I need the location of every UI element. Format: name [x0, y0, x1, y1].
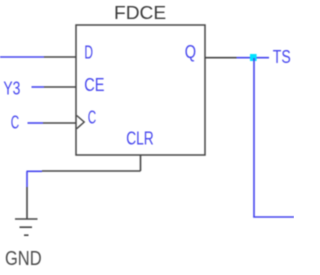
svg-text:CE: CE	[84, 74, 104, 95]
wire net to ground vertical	[26, 171, 28, 187]
wire net Y3 to pin CE	[32, 86, 45, 88]
ground symbol bar 3	[24, 234, 29, 236]
pin CLR stub horizontal	[42, 170, 141, 172]
svg-text:TS: TS	[273, 46, 291, 67]
ground symbol bar 2	[20, 226, 33, 228]
wire net TS bottom run to edge	[253, 216, 294, 218]
svg-text:GND: GND	[5, 248, 42, 270]
wire net to pin D	[0, 56, 44, 58]
ground symbol bar 1	[15, 218, 38, 220]
flip-flop U1 FDCE symbol body	[76, 25, 205, 155]
svg-text:C: C	[88, 107, 96, 128]
pin CLR stub vertical	[140, 155, 142, 171]
svg-text:C: C	[11, 112, 19, 133]
svg-text:Q: Q	[185, 41, 196, 62]
wire net Q to TS	[237, 57, 270, 59]
pin Q stub	[205, 57, 237, 59]
wire net to ground horizontal	[27, 170, 43, 172]
svg-text:D: D	[84, 42, 93, 63]
svg-text:CLR: CLR	[126, 127, 154, 148]
svg-text:Y3: Y3	[3, 77, 20, 98]
ground symbol stem	[26, 187, 28, 219]
clock triangle on pin C	[77, 116, 85, 129]
junction dot on net TS	[250, 54, 257, 61]
pin D stub	[44, 56, 76, 58]
svg-text:FDCE: FDCE	[114, 2, 166, 23]
wire net C to pin C	[28, 122, 44, 124]
pin CE stub	[44, 86, 76, 88]
pin C stub	[43, 122, 76, 124]
wire net TS vertical drop	[253, 58, 255, 217]
